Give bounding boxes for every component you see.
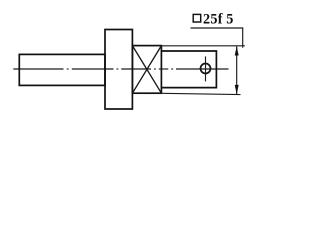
right shaft section	[161, 51, 216, 88]
hole vertical centerline	[205, 56, 207, 81]
left shaft section	[19, 54, 105, 85]
top extension line	[161, 45, 245, 47]
square symbol of label	[193, 14, 201, 22]
leader horizontal	[191, 27, 244, 29]
dimension arrow up	[235, 46, 239, 55]
flat-surface diagonal 2	[132, 46, 161, 94]
bottom extension line	[161, 93, 240, 94]
hole circle	[201, 64, 211, 74]
main centerline (shaft axis, dash-dot)	[13, 68, 228, 70]
leader vertical	[242, 28, 244, 48]
square section outline	[132, 46, 161, 94]
dimension arrow down	[235, 85, 239, 94]
flat-surface diagonal 1	[132, 46, 161, 94]
dimension line	[236, 46, 238, 94]
flange (middle collar)	[105, 30, 132, 110]
svg-text:25f5: 25f5	[203, 11, 233, 27]
